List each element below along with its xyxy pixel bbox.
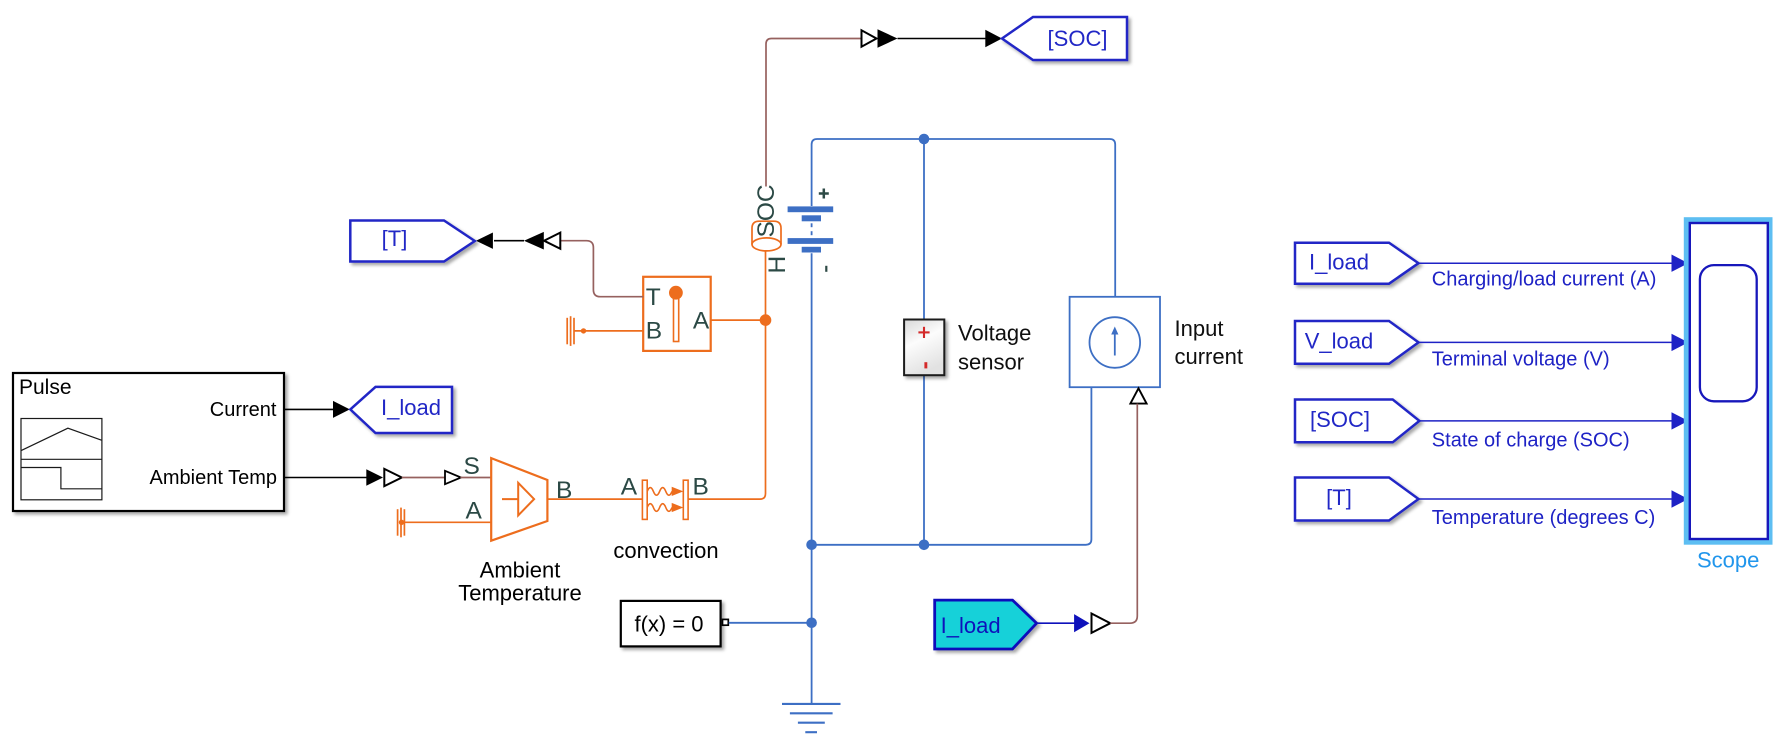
PS-Simulink converter (SOC) (862, 29, 898, 47)
thermal wire convection B to junction and up to battery H (688, 252, 765, 500)
battery - label (825, 266, 827, 272)
svg-text:f(x) = 0: f(x) = 0 (634, 612, 703, 637)
physical signal wire SOC to converter (766, 39, 862, 187)
svg-text:B: B (693, 474, 709, 501)
Simulink-PS converter (Ambient Temp) (366, 469, 402, 486)
svg-text:A: A (693, 308, 710, 335)
PS arrowhead at S (445, 471, 461, 484)
Goto tag [T] (350, 221, 475, 262)
svg-text:Temperature (degrees C): Temperature (degrees C) (1432, 507, 1655, 529)
signal wire to Goto [T] (494, 240, 524, 242)
svg-text:B: B (556, 477, 572, 504)
thermal wire sensor A to junction (711, 319, 766, 321)
svg-text:[T]: [T] (382, 226, 408, 251)
thermometer icon (674, 296, 679, 342)
thermal wire B (ambient to convection A) (547, 498, 642, 500)
signal wire row1 to scope (1419, 255, 1689, 272)
svg-text:convection: convection (613, 538, 718, 563)
signal wire row3 to scope (1419, 412, 1688, 429)
signal wire row2 to scope (1419, 334, 1689, 351)
From tag [SOC] (scope row 3) (1295, 400, 1419, 443)
svg-text:Ambient: Ambient (480, 558, 561, 583)
thermal reference (ambient A) (398, 508, 405, 538)
svg-text:I_load: I_load (381, 395, 441, 420)
svg-text:SOC: SOC (753, 184, 780, 237)
junction node top (919, 134, 930, 145)
From tag V_load (scope row 2) (1295, 321, 1419, 364)
svg-text:current: current (1175, 344, 1243, 369)
junction node bottom mid (919, 540, 930, 551)
svg-text:State of charge (SOC): State of charge (SOC) (1432, 429, 1630, 451)
junction node f(x) (806, 618, 817, 629)
wire Ambient Temp output (285, 477, 368, 479)
battery icon plates (electrical) (788, 206, 834, 252)
signal wire row4 to scope (1419, 490, 1689, 507)
electrical wire voltage sensor down to bottom rail (923, 375, 925, 545)
battery + label (819, 189, 829, 199)
block Scope (1684, 217, 1773, 545)
svg-text:V_load: V_load (1305, 328, 1374, 353)
svg-text:[SOC]: [SOC] (1048, 26, 1108, 51)
svg-text:Ambient Temp: Ambient Temp (150, 467, 277, 489)
svg-text:Current: Current (210, 399, 277, 421)
electrical wire battery - down to ground (811, 253, 813, 704)
electrical bottom rail to input current (812, 387, 1092, 545)
label Ambient Temperature (458, 558, 582, 606)
svg-text:Terminal voltage (V): Terminal voltage (V) (1432, 349, 1610, 371)
thermal wire reference to A port (404, 521, 491, 523)
block convection (convective heat transfer) (642, 480, 688, 519)
physical signal wire T port to converter (560, 241, 643, 297)
thermal wire reference to B port (574, 330, 643, 332)
svg-text:Voltage: Voltage (958, 321, 1031, 346)
block Ambient Temperature (temperature source) (464, 453, 548, 541)
From tag I_load (scope row 1) (1295, 243, 1419, 284)
Simulink-PS converter (I_load) (1074, 614, 1110, 633)
svg-text:H: H (764, 256, 791, 274)
svg-text:B: B (646, 318, 662, 345)
physical signal wire to input current port (1110, 404, 1137, 624)
ground (electrical reference) (782, 704, 841, 732)
svg-text:Input: Input (1175, 316, 1224, 341)
electrical wire junction down to voltage sensor (923, 139, 925, 320)
svg-text:A: A (621, 474, 638, 501)
PS input port triangle (input current) (1130, 388, 1146, 403)
svg-text:Temperature: Temperature (458, 581, 582, 606)
svg-text:T: T (646, 284, 661, 311)
signal wire From I_load to converter (1037, 622, 1075, 624)
junction node (thermal) (760, 314, 772, 326)
wire Current output (285, 401, 350, 418)
svg-text:I_load: I_load (941, 613, 1001, 638)
svg-text:[T]: [T] (1326, 485, 1352, 510)
block Input current (controlled current source) (1070, 297, 1160, 387)
junction node bottom left (806, 540, 817, 551)
block voltage sensor (904, 320, 944, 376)
svg-text:I_load: I_load (1309, 249, 1369, 274)
physical signal wire to S port (402, 477, 446, 479)
From tag I_load (cyan) (935, 600, 1037, 649)
thermal reference (sensor B) (567, 316, 574, 346)
svg-text:Charging/load current (A): Charging/load current (A) (1432, 268, 1657, 290)
svg-text:A: A (466, 497, 483, 524)
svg-text:Pulse: Pulse (19, 376, 72, 399)
svg-text:Scope: Scope (1697, 548, 1759, 573)
label Input current (1175, 316, 1243, 369)
svg-text:sensor: sensor (958, 350, 1024, 375)
svg-text:[SOC]: [SOC] (1310, 407, 1370, 432)
Goto tag [SOC] (1002, 17, 1127, 60)
block temperature sensor (643, 277, 711, 351)
block f(x)=0 (solver configuration) (621, 601, 729, 647)
block Pulse (source subsystem) (13, 373, 284, 511)
PS-Simulink converter (T) (524, 232, 560, 250)
Goto tag I_load (350, 387, 452, 433)
battery block: SOC/H port cylinder (752, 221, 781, 251)
svg-text:S: S (464, 453, 480, 480)
label Voltage sensor (958, 321, 1031, 375)
From tag [T] (scope row 4) (1295, 478, 1419, 521)
signal wire to Goto [SOC] (898, 38, 987, 40)
electrical wire battery + up and top rail to input current (812, 139, 1116, 297)
electrical wire f(x) to node (729, 622, 812, 624)
